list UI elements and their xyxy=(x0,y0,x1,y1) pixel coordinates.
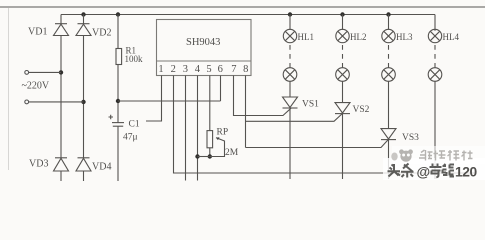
lamp HL2b xyxy=(336,68,350,82)
node top rail dot HL1 xyxy=(288,12,292,16)
wire pin5 to RP xyxy=(209,76,211,131)
svg-text:HL4: HL4 xyxy=(443,32,460,42)
diode VD3 xyxy=(54,158,69,171)
wire VD1 stub xyxy=(60,15,62,24)
svg-text:5: 5 xyxy=(206,64,211,75)
svg-text:7: 7 xyxy=(231,64,236,75)
svg-text:RP: RP xyxy=(217,128,229,138)
wire HL2 dashed link xyxy=(342,45,344,68)
wire HL1b to VS1 xyxy=(289,81,291,97)
potentiometer RP xyxy=(207,131,213,148)
wire top rail xyxy=(61,14,435,16)
wire RP to pin4 xyxy=(198,156,210,158)
wire HL4 drop xyxy=(434,15,436,31)
svg-text:SH9043: SH9043 xyxy=(186,37,220,48)
wire C1 to pin6 xyxy=(118,100,221,102)
lamp HL3b xyxy=(382,68,396,82)
wire VS1 cathode down xyxy=(289,108,291,179)
thyristor VS2 xyxy=(335,103,350,114)
svg-text:VS2: VS2 xyxy=(353,105,370,115)
wire pin4 xyxy=(197,76,199,181)
svg-text:~220V: ~220V xyxy=(22,81,50,92)
node RP dot xyxy=(208,154,212,158)
svg-text:47μ: 47μ xyxy=(123,133,138,143)
wire pin7 to VS1 gate xyxy=(234,76,292,116)
node C1 dot xyxy=(116,99,120,103)
wire HL3b to VS3 xyxy=(388,81,390,129)
watermark logo xyxy=(391,149,413,161)
svg-text:VS1: VS1 xyxy=(302,100,319,110)
wire VS3 cathode down xyxy=(388,140,390,179)
svg-text:VD3: VD3 xyxy=(29,159,48,170)
frame top border xyxy=(0,6,485,8)
svg-text:HL1: HL1 xyxy=(298,32,315,42)
wire pin3 xyxy=(185,76,187,181)
watermark line1 text (fake CJK strokes) xyxy=(419,150,473,161)
wire VS2 cathode down xyxy=(342,114,344,179)
terminal L xyxy=(25,71,29,75)
svg-text:4: 4 xyxy=(195,64,201,75)
wire VD2 stub xyxy=(83,15,85,24)
svg-text:120: 120 xyxy=(455,165,478,180)
wire HL4 dashed link xyxy=(434,45,436,68)
watermark white glow xyxy=(392,146,485,164)
diode VD1 xyxy=(54,24,69,36)
svg-text:2: 2 xyxy=(171,64,176,75)
node top rail dot R1 xyxy=(116,12,120,16)
svg-text:VD1: VD1 xyxy=(28,27,47,38)
svg-text:C1: C1 xyxy=(129,120,140,130)
wire terminal N to VD2 xyxy=(29,101,84,103)
svg-text:8: 8 xyxy=(243,64,248,75)
node VD2 AC dot xyxy=(81,100,85,104)
wire HL4b down xyxy=(434,81,436,179)
svg-text:HL3: HL3 xyxy=(396,32,413,42)
wire VD2-VD4 column xyxy=(83,36,85,158)
wire R1 top stub xyxy=(117,15,119,49)
lamp HL4b xyxy=(428,68,442,82)
wire pin8 xyxy=(245,76,247,148)
resistor R1 xyxy=(116,49,122,65)
wire terminal L to VD1 xyxy=(29,71,61,73)
wire HL2 stub xyxy=(342,15,344,30)
thyristor VS3 xyxy=(381,129,396,140)
wire pin1 xyxy=(146,76,162,122)
watermark line2 (fake CJK 头条 + @节能120) xyxy=(388,164,414,178)
terminal N xyxy=(25,100,29,104)
diode VD4 xyxy=(76,158,91,171)
lamp HL4 xyxy=(428,29,441,42)
wire C1 bottom xyxy=(117,126,119,181)
frame left border xyxy=(8,8,10,170)
svg-text:100k: 100k xyxy=(125,54,144,64)
wire HL2b to VS2 xyxy=(342,81,344,103)
node top rail dot HL2 xyxy=(340,12,344,16)
lamp HL1b xyxy=(283,68,297,82)
wire HL1 dashed link xyxy=(289,45,291,68)
wire RP bottom xyxy=(209,148,211,157)
lamp HL3 xyxy=(382,29,395,42)
wire HL3 stub xyxy=(388,15,390,30)
lamp HL1 xyxy=(283,29,296,42)
node top rail dot VD2 xyxy=(81,12,85,16)
node top rail dot HL3 xyxy=(386,12,390,16)
wire VD3 bottom stub xyxy=(60,171,62,181)
svg-text:VS3: VS3 xyxy=(402,133,419,143)
svg-text:VD2: VD2 xyxy=(92,28,111,39)
wire VD4 bottom stub xyxy=(83,171,85,181)
wire R1 to C1 xyxy=(117,65,119,123)
svg-text:6: 6 xyxy=(218,64,223,75)
lamp HL2 xyxy=(336,29,349,42)
capacitor C1 xyxy=(109,115,125,126)
wire pin8 to VS2 gate xyxy=(246,114,343,121)
svg-text:@: @ xyxy=(417,164,431,180)
node pin4 RP dot xyxy=(195,154,199,158)
wire HL1 stub xyxy=(289,15,291,30)
svg-text:1: 1 xyxy=(158,64,163,75)
diode VD2 xyxy=(76,24,91,36)
wire pin8 to VS3 gate xyxy=(246,140,389,148)
svg-text:2M: 2M xyxy=(225,148,239,158)
svg-text:3: 3 xyxy=(183,64,188,75)
wire HL3 dashed link xyxy=(388,45,390,68)
wire pin2 bottom rail xyxy=(174,76,476,174)
pin numbers 1-8 xyxy=(158,64,248,75)
op-amp U1 IC SH9043 box xyxy=(157,20,252,76)
wire RP wiper xyxy=(210,137,225,156)
node VD1 AC dot xyxy=(59,70,63,74)
thyristor VS1 xyxy=(283,97,298,108)
svg-text:VD4: VD4 xyxy=(92,162,111,173)
wire VD1-VD3 column xyxy=(60,36,62,158)
wire pin6 xyxy=(220,76,222,102)
svg-text:HL2: HL2 xyxy=(350,32,367,42)
